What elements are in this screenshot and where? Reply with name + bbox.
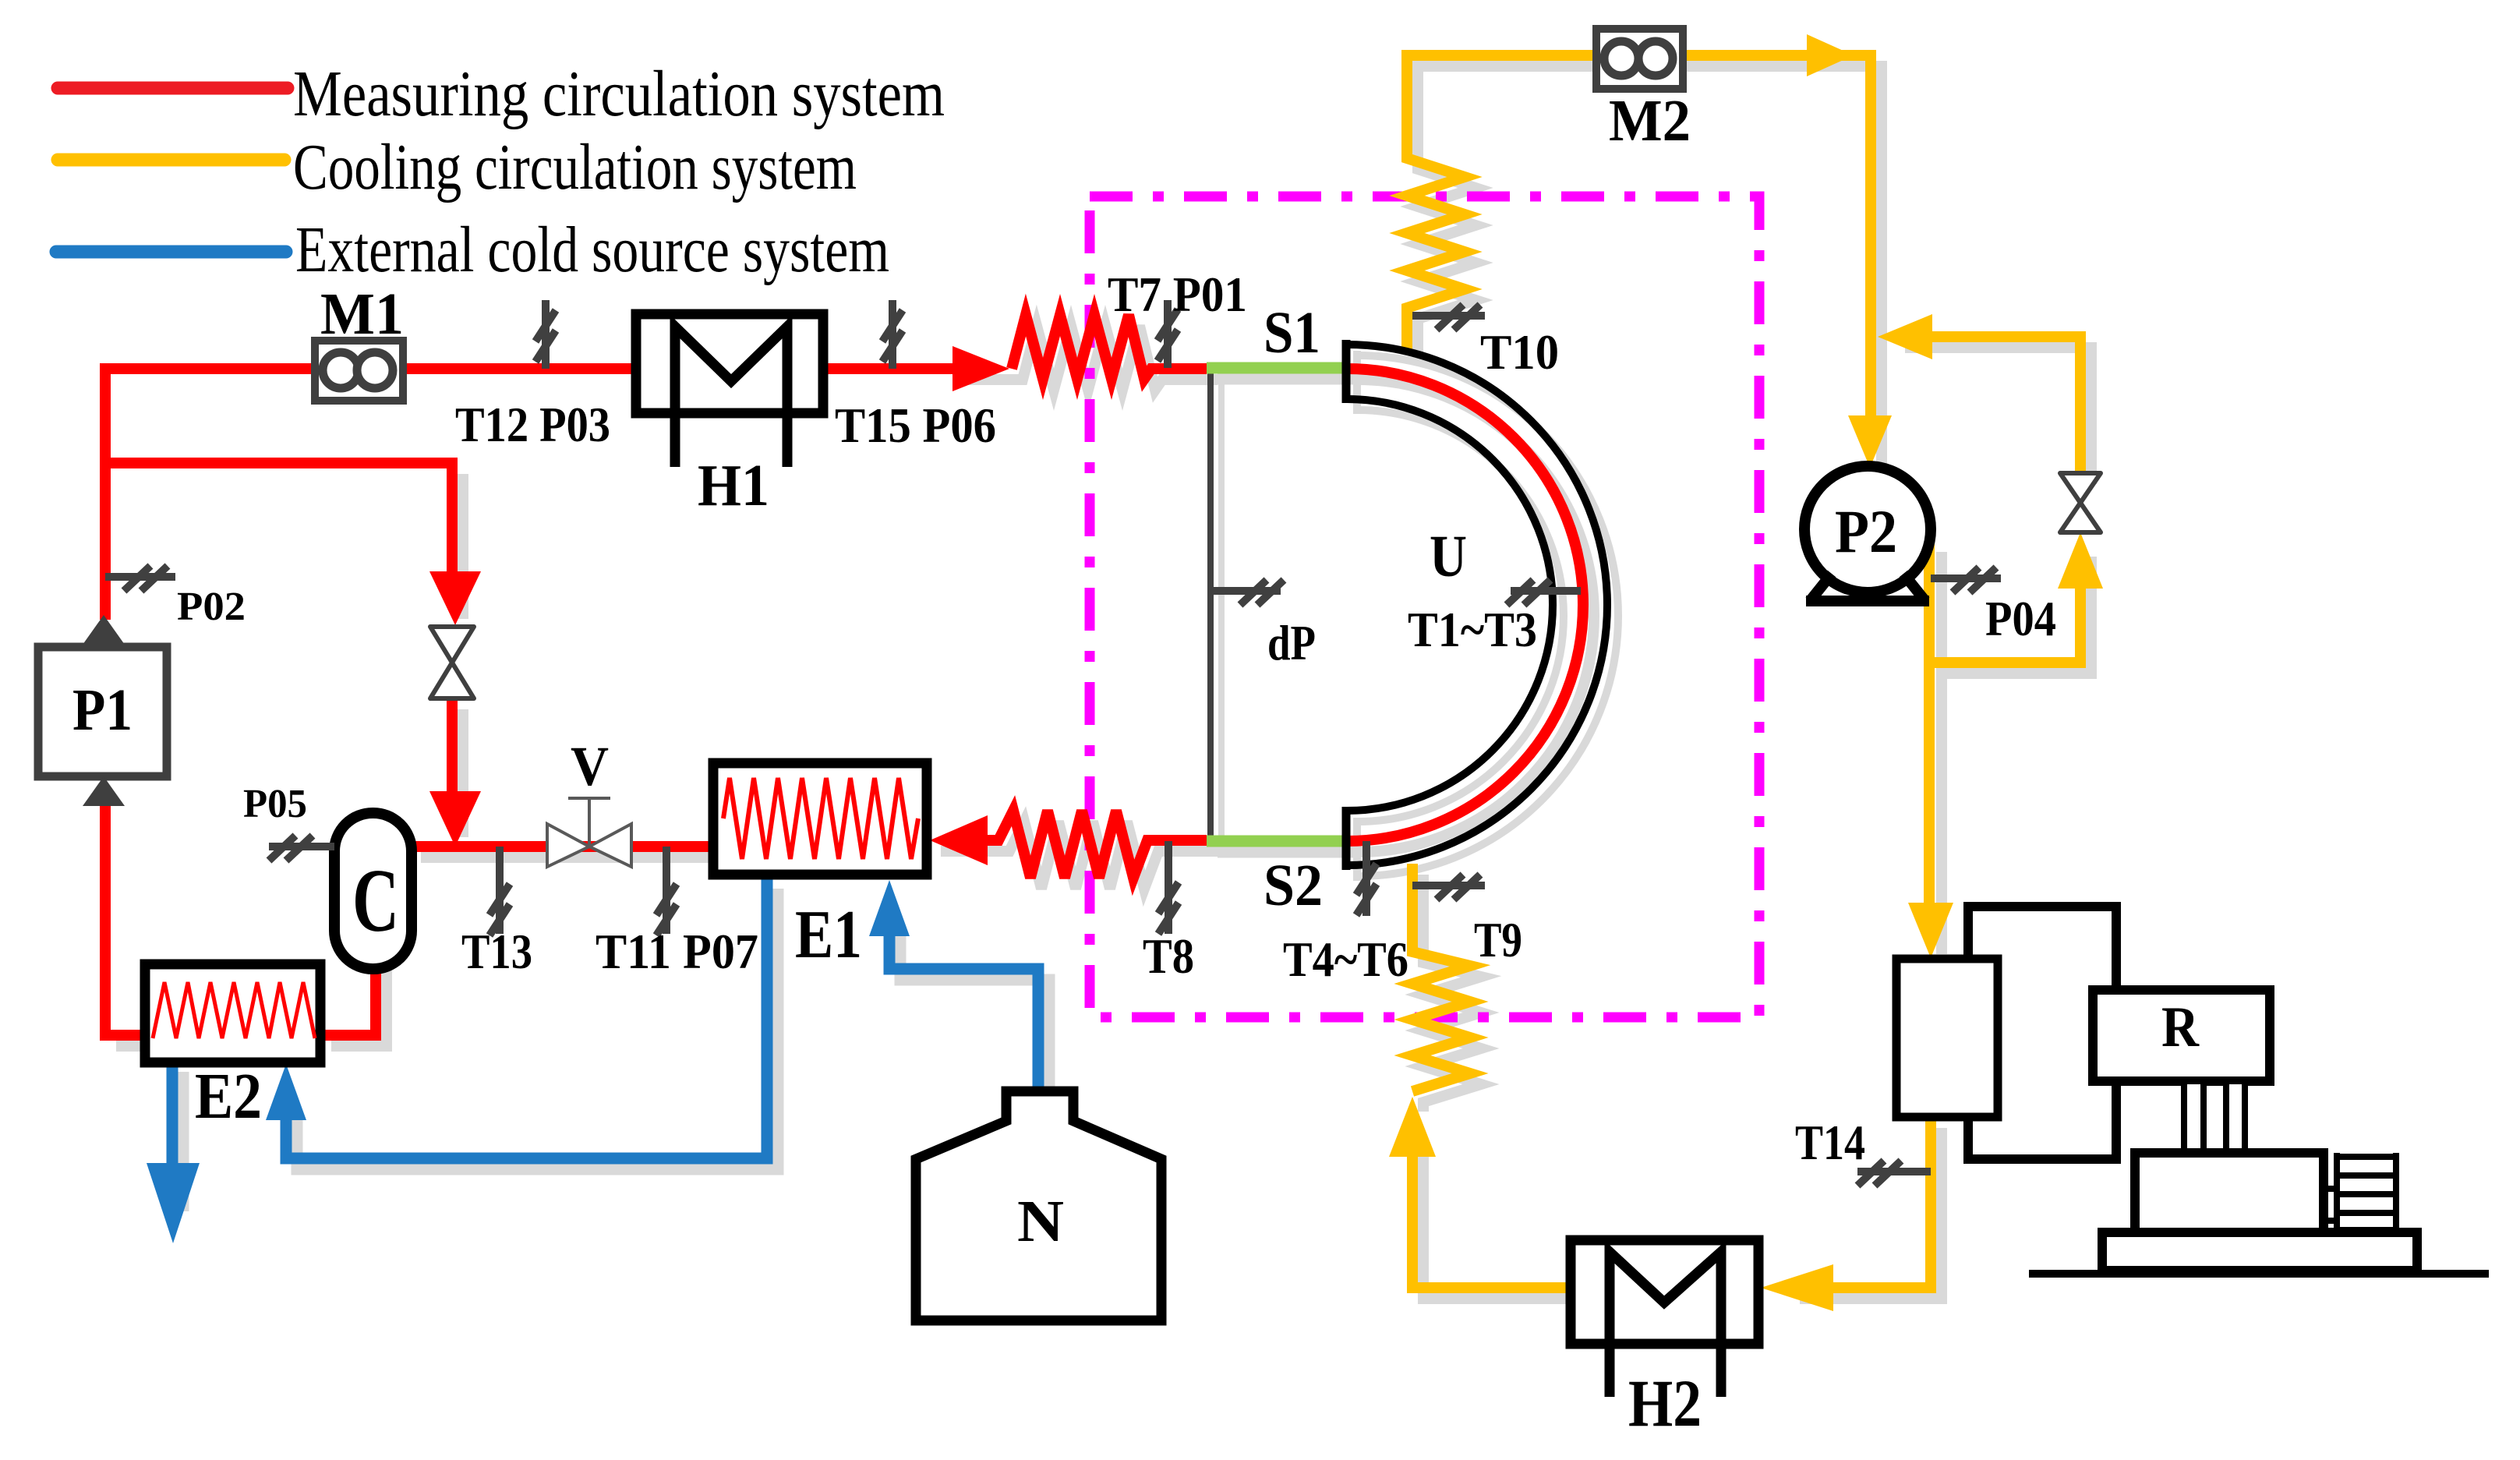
svg-text:S2: S2 bbox=[1264, 853, 1323, 918]
svg-text:External cold source system: External cold source system bbox=[295, 214, 889, 286]
svg-text:T4~T6: T4~T6 bbox=[1283, 932, 1408, 987]
svg-text:N: N bbox=[1017, 1189, 1064, 1254]
svg-text:T12 P03: T12 P03 bbox=[455, 398, 610, 452]
svg-text:P02: P02 bbox=[177, 585, 246, 629]
svg-text:U: U bbox=[1430, 524, 1467, 589]
svg-text:P04: P04 bbox=[1985, 592, 2056, 646]
svg-text:T1~T3: T1~T3 bbox=[1408, 603, 1537, 657]
svg-text:T14: T14 bbox=[1795, 1115, 1865, 1170]
svg-text:T11 P07: T11 P07 bbox=[596, 924, 758, 979]
svg-text:T9: T9 bbox=[1474, 913, 1522, 967]
svg-text:T7 P01: T7 P01 bbox=[1108, 267, 1247, 322]
svg-text:V: V bbox=[571, 735, 609, 797]
svg-text:S1: S1 bbox=[1264, 300, 1320, 366]
svg-text:P1: P1 bbox=[72, 677, 133, 743]
svg-text:M2: M2 bbox=[1609, 88, 1691, 154]
svg-text:T10: T10 bbox=[1480, 325, 1559, 380]
svg-text:M1: M1 bbox=[320, 281, 404, 347]
svg-text:E2: E2 bbox=[195, 1060, 262, 1133]
svg-text:H2: H2 bbox=[1628, 1366, 1702, 1441]
svg-text:E1: E1 bbox=[795, 897, 862, 973]
svg-text:Measuring circulation system: Measuring circulation system bbox=[293, 58, 945, 130]
svg-text:T8: T8 bbox=[1143, 929, 1194, 984]
svg-text:P05: P05 bbox=[243, 782, 307, 826]
svg-text:Cooling circulation system: Cooling circulation system bbox=[293, 131, 857, 203]
svg-text:T15 P06: T15 P06 bbox=[835, 398, 996, 453]
svg-text:C: C bbox=[352, 851, 399, 951]
svg-text:dP: dP bbox=[1267, 616, 1316, 670]
svg-text:R: R bbox=[2161, 995, 2200, 1059]
svg-text:P2: P2 bbox=[1835, 497, 1897, 565]
svg-text:T13: T13 bbox=[461, 924, 532, 979]
svg-text:H1: H1 bbox=[698, 453, 769, 518]
